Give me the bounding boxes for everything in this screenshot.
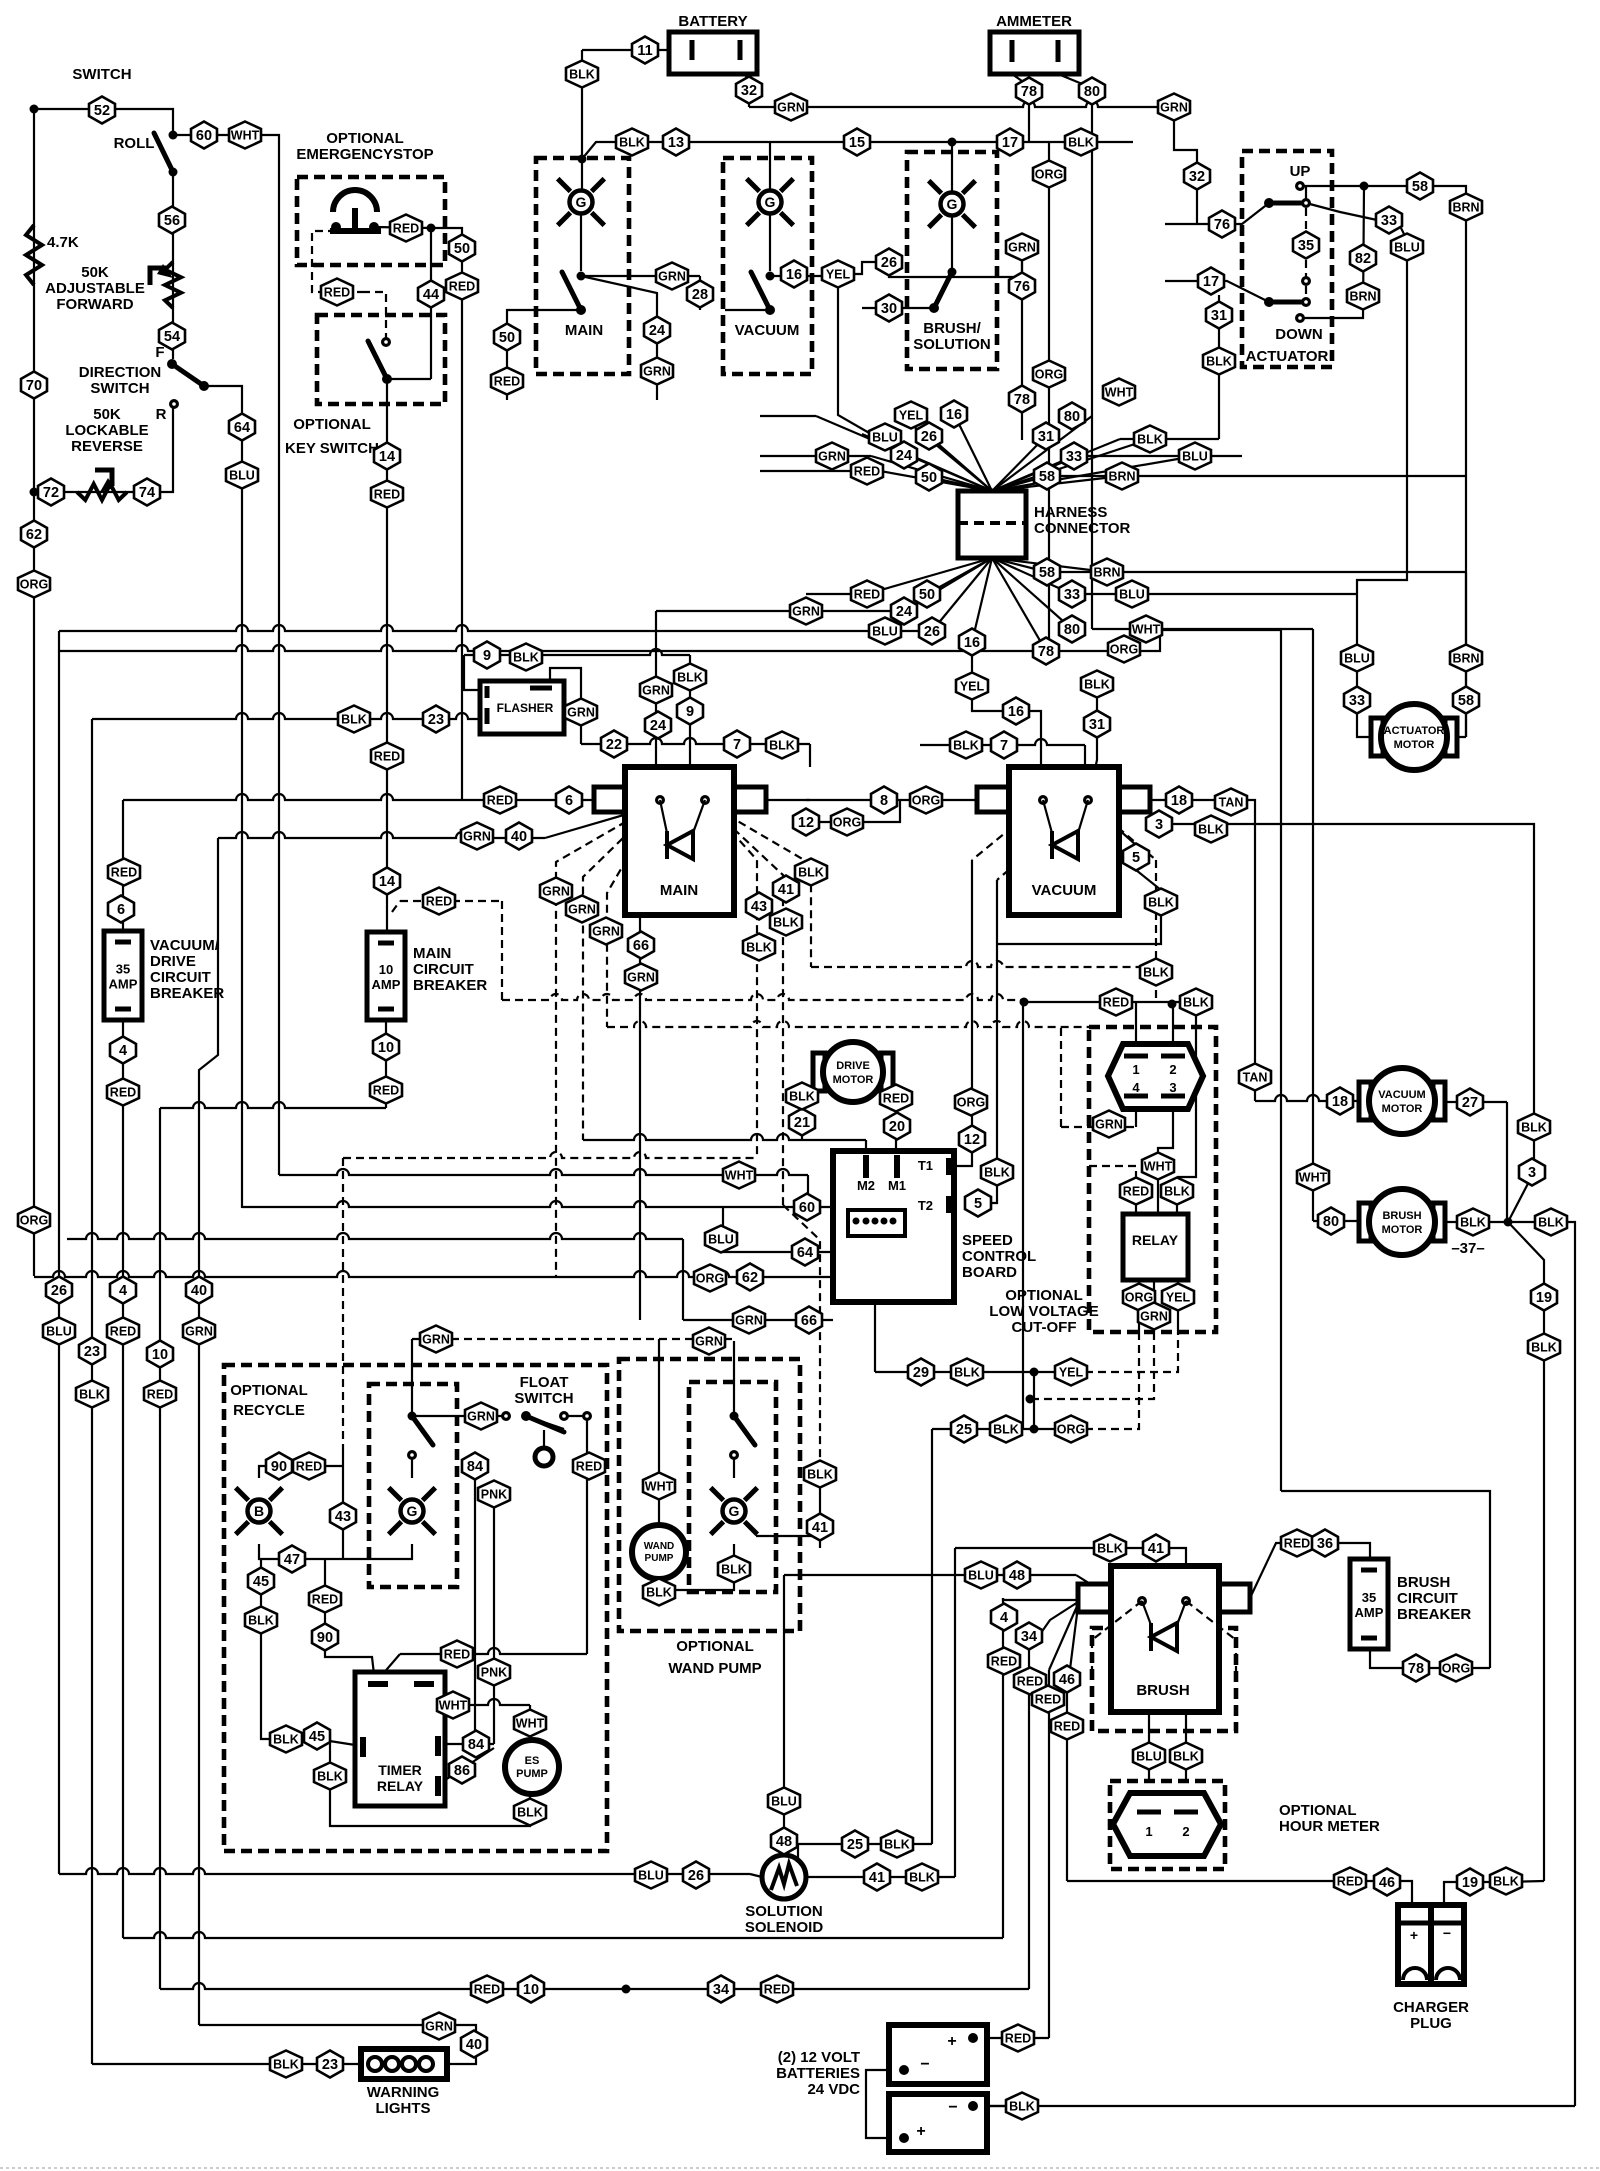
wire label RED — [107, 1079, 139, 1106]
svg-text:16: 16 — [1008, 704, 1024, 720]
dashed brush fan right — [1186, 1601, 1236, 1640]
wire label 58 — [1034, 559, 1060, 586]
wire WHT into ES pump — [529, 1705, 531, 1742]
svg-text:LOCKABLE: LOCKABLE — [65, 422, 148, 439]
svg-text:BLK: BLK — [798, 866, 824, 880]
svg-text:M2: M2 — [857, 1178, 875, 1193]
dashed wire MAIN fan GRN x583 — [583, 802, 660, 1140]
svg-text:HOUR METER: HOUR METER — [1279, 1818, 1380, 1835]
wire label BLK — [795, 859, 827, 886]
harness fan wire — [992, 416, 1092, 491]
svg-text:DRIVE: DRIVE — [150, 953, 196, 970]
wire GRN 32 descent to 76 — [1174, 107, 1197, 224]
svg-text:15: 15 — [849, 135, 865, 151]
wire vacuum lower contact — [725, 309, 770, 311]
svg-text:RED: RED — [1017, 1675, 1043, 1689]
wire label GRN — [1093, 1111, 1125, 1138]
svg-text:BLK: BLK — [1531, 1341, 1557, 1355]
wire label BLK — [1170, 1743, 1202, 1770]
svg-text:33: 33 — [1064, 587, 1080, 603]
wire label GRN — [461, 823, 493, 850]
svg-text:BLK: BLK — [1097, 1542, 1123, 1556]
wire label BLK — [1161, 1178, 1193, 1205]
wire label WHT — [514, 1710, 546, 1737]
wire hourmeter pin1 — [1148, 1796, 1150, 1812]
svg-text:MOTOR: MOTOR — [1382, 1103, 1423, 1115]
wire label YEL — [895, 402, 927, 429]
wire label BLU — [635, 1862, 667, 1889]
svg-text:BLK: BLK — [1009, 2100, 1035, 2114]
wire 33 BLU down — [1357, 228, 1407, 594]
wire label 5 — [1123, 844, 1149, 871]
svg-text:RED: RED — [576, 1460, 602, 1474]
battery 1 box — [889, 2025, 987, 2084]
svg-text:3: 3 — [1155, 817, 1163, 833]
optional emergency stop enclosure — [297, 177, 445, 265]
svg-text:BLK: BLK — [773, 916, 799, 930]
dashed wire MAIN fan 43 — [705, 802, 757, 1158]
svg-text:78: 78 — [1021, 84, 1037, 100]
svg-text:4: 4 — [119, 1043, 127, 1059]
svg-text:RED: RED — [494, 375, 520, 389]
dashed 43 row y1158 — [343, 1152, 757, 1158]
wire label 33 — [1344, 687, 1370, 714]
brush relay diode — [1151, 1623, 1177, 1651]
wire x59 long vertical — [58, 631, 60, 1874]
wire label GRN — [733, 1307, 765, 1334]
svg-text:SOLUTION: SOLUTION — [913, 336, 991, 353]
pot 50K lockable reverse — [77, 484, 127, 500]
wire brush BLU down — [1148, 1714, 1150, 1781]
wire label BRN — [1091, 559, 1123, 586]
svg-text:CIRCUIT: CIRCUIT — [413, 961, 474, 978]
wire bottom row y1938 — [123, 1932, 1003, 1938]
svg-text:RED: RED — [111, 866, 137, 880]
svg-text:11: 11 — [637, 43, 652, 59]
wire 41 wand row — [756, 1535, 820, 1537]
wire 31 BLK down — [1218, 295, 1220, 439]
dashed YEL to relay — [1085, 1332, 1178, 1372]
svg-text:BLU: BLU — [1344, 652, 1370, 666]
label UP — [1290, 163, 1311, 180]
dashed ORG to relay — [1085, 1332, 1139, 1429]
svg-text:9: 9 — [686, 704, 694, 720]
wire 29 drop — [874, 1245, 876, 1372]
svg-text:41: 41 — [778, 882, 794, 898]
svg-text:16: 16 — [946, 407, 962, 423]
wire left bus x35 down — [33, 109, 35, 492]
wire TAN into vacuum motor — [1255, 1095, 1368, 1101]
svg-text:HARNESS: HARNESS — [1034, 504, 1107, 521]
wire BRN to motor (merge) — [1465, 572, 1467, 737]
svg-text:78: 78 — [1014, 392, 1030, 408]
svg-text:4: 4 — [1132, 1080, 1140, 1095]
svg-text:BLK: BLK — [79, 1388, 105, 1402]
svg-text:7: 7 — [733, 737, 741, 753]
svg-text:2: 2 — [1169, 1062, 1176, 1077]
svg-text:FLASHER: FLASHER — [497, 701, 554, 715]
wire label 76 — [1009, 273, 1035, 300]
wire BLU 26 bottom row — [59, 1868, 750, 1874]
svg-text:1: 1 — [1132, 1062, 1139, 1077]
svg-text:24: 24 — [649, 323, 665, 339]
label BATTERY — [678, 13, 747, 30]
wire label 17 — [1198, 268, 1224, 295]
wire label 15 — [844, 129, 870, 156]
wire 21 M2 row y1140 — [583, 1134, 866, 1140]
wire label 6 — [108, 896, 134, 923]
dashed wire MAIN fan GRN x556 — [556, 802, 660, 1277]
svg-text:ORG: ORG — [20, 1214, 48, 1228]
harness connector mid dash — [958, 521, 1026, 525]
svg-text:BLK: BLK — [984, 1166, 1010, 1180]
svg-text:–37–: –37– — [1451, 1240, 1484, 1257]
wire label 3 — [1146, 811, 1172, 838]
wire label WHT — [1142, 1153, 1174, 1180]
wire label YEL — [1162, 1284, 1194, 1311]
svg-text:RED: RED — [1123, 1185, 1149, 1199]
harness fan low wire — [992, 558, 1047, 572]
svg-text:F: F — [155, 344, 164, 361]
svg-text:27: 27 — [1462, 1095, 1478, 1111]
dashed RED row — [400, 900, 502, 902]
dashed RED stub — [392, 901, 400, 912]
wire 34 fan — [1029, 1602, 1078, 1650]
wire GRN 40 row — [218, 832, 545, 838]
wire link 29-25 — [1033, 1372, 1035, 1429]
svg-text:BLK: BLK — [1183, 996, 1209, 1010]
flasher box — [480, 681, 564, 734]
svg-text:58: 58 — [1039, 565, 1055, 581]
wire label BLU — [1179, 443, 1211, 470]
35 lower contact — [1301, 276, 1311, 286]
wire BLU 33 motor left — [1357, 594, 1381, 737]
wire x1029 up 34 — [1028, 1650, 1030, 1989]
svg-text:31: 31 — [1211, 308, 1227, 324]
wire label 45 — [304, 1723, 330, 1750]
MAIN relay box — [625, 767, 734, 915]
wire wand G top column — [733, 1341, 735, 1416]
wire label 41 — [773, 876, 799, 903]
wire 78 ORG long row — [60, 645, 1124, 651]
wire label 16 — [781, 261, 807, 288]
svg-text:VACUUM: VACUUM — [735, 322, 800, 339]
wire label 26 — [46, 1277, 72, 1304]
wire label PNK — [478, 1481, 510, 1508]
wire label 66 — [796, 1307, 822, 1334]
svg-text:WAND PUMP: WAND PUMP — [668, 1660, 761, 1677]
label F — [155, 344, 164, 361]
svg-text:GRN: GRN — [658, 270, 686, 284]
wire YEL 16 to harness — [838, 300, 871, 434]
svg-text:43: 43 — [335, 1509, 351, 1525]
svg-text:32: 32 — [1189, 169, 1205, 185]
harness fan wire — [816, 416, 992, 491]
junction brush motor — [1504, 1218, 1513, 1227]
wire label 50 — [494, 324, 520, 351]
wire BLU 48 row — [953, 1574, 1076, 1576]
wire label 16 — [1003, 698, 1029, 725]
svg-text:BLU: BLU — [229, 469, 255, 483]
wire roll switch to direction switch — [172, 172, 174, 359]
label optional wand pump — [668, 1638, 761, 1677]
svg-text:24: 24 — [896, 448, 912, 464]
wire WHT drop to 60 row — [807, 1175, 809, 1207]
wire VACUUM right tab — [1119, 799, 1150, 801]
wire label 25 — [842, 1831, 868, 1858]
wire RED 50 row left end — [806, 593, 867, 595]
wire 33 BLU row to actuator motor — [1072, 593, 1357, 595]
wire label BLK — [1195, 816, 1227, 843]
direction switch F contact — [167, 359, 177, 369]
wire MAIN contact to GRN — [581, 275, 700, 277]
svg-text:10: 10 — [379, 962, 393, 977]
label MAIN switch — [565, 322, 603, 339]
svg-text:WHT: WHT — [231, 129, 260, 143]
wire label 90 — [312, 1624, 338, 1651]
wire GRN row y107 — [749, 101, 1174, 107]
harness fan low wire — [992, 558, 1072, 594]
wire ORG 12 T1 column — [954, 860, 972, 1166]
wire label 48 — [771, 1828, 797, 1855]
svg-text:21: 21 — [794, 1115, 810, 1131]
wire label 26 — [876, 249, 902, 276]
VACUUM switch pivot — [766, 272, 775, 281]
wire label 23 — [317, 2051, 343, 2078]
pot arrow — [150, 268, 166, 285]
wire label WHT — [1130, 616, 1162, 643]
wire 17 into actuator down contact — [1165, 281, 1269, 302]
wire label BRN — [1450, 645, 1482, 672]
wire label 40 — [186, 1277, 212, 1304]
down fixed contact — [1264, 297, 1274, 307]
svg-text:24: 24 — [650, 718, 666, 734]
svg-text:GRN: GRN — [695, 1335, 723, 1349]
brush circuit breaker — [1350, 1559, 1388, 1649]
svg-text:26: 26 — [688, 1868, 704, 1884]
wire GRN 40 to warning lights — [199, 2025, 476, 2064]
dashed bus y1027 — [607, 1021, 1089, 1027]
wire label RED — [107, 1318, 139, 1345]
wire into MAIN relay right — [809, 744, 811, 767]
svg-text:WHT: WHT — [1144, 1160, 1173, 1174]
svg-text:BLU: BLU — [708, 1233, 734, 1247]
svg-text:48: 48 — [1009, 1568, 1025, 1584]
wire label 9 — [474, 642, 500, 669]
wire label 18 — [1166, 787, 1192, 814]
wire row y1002 — [1024, 1001, 1196, 1003]
junction battery BLK — [578, 155, 587, 164]
svg-text:+: + — [916, 2123, 925, 2140]
wire 84 row to timer pin — [436, 1743, 494, 1745]
wire label 44 — [418, 281, 444, 308]
wire x1023 down — [1022, 1002, 1024, 1429]
wire pin2 up — [1172, 1004, 1174, 1044]
wire ammeter left 78 — [1012, 74, 1029, 142]
wire label BRN — [1106, 463, 1138, 490]
svg-text:BLK: BLK — [619, 136, 645, 150]
wire label BLK — [981, 1159, 1013, 1186]
wire label 18 — [1327, 1088, 1353, 1115]
wire label 4 — [110, 1277, 136, 1304]
wire label 60 — [794, 1194, 820, 1221]
svg-text:90: 90 — [317, 1630, 333, 1646]
svg-text:52: 52 — [94, 103, 110, 119]
wire label 43 — [746, 893, 772, 920]
svg-text:OPTIONAL: OPTIONAL — [230, 1382, 308, 1399]
svg-text:G: G — [407, 1503, 418, 1519]
wire label 90 — [266, 1453, 292, 1480]
svg-text:GRN: GRN — [542, 885, 570, 899]
svg-text:RED: RED — [374, 750, 400, 764]
harness fan wire — [954, 414, 992, 491]
wire label ORG — [18, 571, 50, 598]
wire label 34 — [1016, 1623, 1042, 1650]
wire RED 46 to charger — [1067, 1881, 1412, 1905]
svg-text:RED: RED — [991, 1655, 1017, 1669]
svg-text:BLU: BLU — [771, 1795, 797, 1809]
VACUUM relay left tab — [977, 787, 1009, 812]
svg-text:RED: RED — [373, 1084, 399, 1098]
wire label BLK — [906, 1864, 938, 1891]
actuator up arm — [1269, 201, 1306, 206]
wire label GRN — [790, 598, 822, 625]
wire label RED — [371, 481, 403, 508]
roll switch pivot — [169, 131, 178, 140]
warning light bulbs — [368, 2057, 382, 2071]
wire 80 WHT row right — [1092, 628, 1313, 630]
wire label RED — [309, 1586, 341, 1613]
svg-text:WHT: WHT — [1299, 1171, 1328, 1185]
svg-text:31: 31 — [1038, 429, 1054, 445]
svg-text:RELAY: RELAY — [1132, 1232, 1179, 1248]
wire YEL row — [1034, 1371, 1085, 1373]
svg-text:RED: RED — [854, 588, 880, 602]
wire label 5 — [965, 1190, 991, 1217]
wire label 8 — [871, 787, 897, 814]
wire label RED — [1032, 1686, 1064, 1713]
svg-text:MAIN: MAIN — [565, 322, 603, 339]
brush relay dashed enclosure — [1092, 1628, 1236, 1731]
wire label BLK — [245, 1607, 277, 1634]
svg-text:DOWN: DOWN — [1275, 326, 1323, 343]
wire label 29 — [908, 1359, 934, 1386]
svg-text:4: 4 — [1000, 1610, 1008, 1626]
wire 48 BLU vertical — [783, 1575, 785, 1856]
wire label 82 — [1350, 245, 1376, 272]
wire label 33 — [1061, 443, 1087, 470]
svg-text:TAN: TAN — [1219, 796, 1244, 810]
wire x1003 up to brush fan — [1002, 1598, 1004, 1938]
wire relay ORG down — [1138, 1280, 1140, 1332]
dashed brush fan left — [1092, 1601, 1142, 1640]
label 50K adjustable forward — [45, 264, 145, 313]
VACUUM relay right tab — [1119, 787, 1150, 812]
junction estop RED — [427, 224, 436, 233]
up moving contact — [1301, 198, 1311, 208]
svg-text:18: 18 — [1332, 1094, 1348, 1110]
svg-text:26: 26 — [881, 255, 897, 271]
svg-text:ROLL: ROLL — [114, 135, 155, 152]
wire up moving contact — [1305, 186, 1307, 203]
svg-text:BLK: BLK — [1143, 966, 1169, 980]
key switch contact — [381, 337, 391, 347]
wire main breaker bottom — [385, 1020, 387, 1108]
wire brush BLK down — [1185, 1714, 1187, 1781]
speed board pin wire — [892, 1221, 894, 1245]
wire BS to GRN right — [952, 276, 1022, 278]
wire label BLK — [514, 1799, 546, 1826]
svg-text:KEY SWITCH: KEY SWITCH — [285, 440, 379, 457]
wire label 64 — [229, 414, 255, 441]
svg-text:ACTUATOR: ACTUATOR — [1246, 348, 1329, 365]
junction hexconn — [1168, 1000, 1177, 1009]
wire flasher GRN 22 — [550, 668, 581, 744]
wire GRN to recycle G pivot — [411, 1339, 413, 1416]
wire label GRN — [565, 699, 597, 726]
wire 80 into brush motor — [1313, 1220, 1368, 1222]
wire BLK 41 vertical solid — [819, 1474, 821, 1548]
label optional recycle — [230, 1382, 308, 1419]
label AMMETER — [996, 13, 1072, 30]
svg-text:FLOAT: FLOAT — [520, 1374, 569, 1391]
wire label BLK — [1203, 348, 1235, 375]
dashed wire MAIN fan BLK — [705, 802, 811, 967]
svg-text:GRN: GRN — [1095, 1118, 1123, 1132]
optional low voltage cutoff enclosure — [1089, 1027, 1216, 1332]
wire brush right tab — [1219, 1597, 1250, 1599]
page bottom dotted line — [0, 2167, 1600, 2169]
wire label 12 — [793, 809, 819, 836]
wire 58 BRN row right — [1047, 475, 1466, 477]
wire RED 90 to timer — [325, 1559, 375, 1683]
svg-text:YEL: YEL — [1166, 1291, 1191, 1305]
wire brush motor BLK — [1436, 1221, 1508, 1223]
wire label GRN — [420, 1326, 452, 1353]
wire label 17 — [997, 129, 1023, 156]
svg-text:BLK: BLK — [317, 1770, 343, 1784]
svg-text:72: 72 — [43, 485, 59, 501]
svg-text:10: 10 — [378, 1040, 394, 1056]
harness fan wire — [929, 477, 992, 491]
harness fan wire — [900, 415, 992, 491]
svg-text:REVERSE: REVERSE — [71, 438, 143, 455]
recycle coil G — [389, 1488, 436, 1535]
wire label ORG — [18, 1207, 50, 1234]
recycle G arm — [412, 1416, 433, 1445]
wire 7 BLK row — [920, 739, 1085, 745]
svg-text:BLK: BLK — [1137, 433, 1163, 447]
svg-text:BLK: BLK — [993, 1423, 1019, 1437]
svg-text:OPTIONAL: OPTIONAL — [676, 1638, 754, 1655]
wire BLK 31 column to vacuum relay — [1088, 684, 1097, 800]
svg-text:RECYCLE: RECYCLE — [233, 1402, 305, 1419]
wire label 46 — [1054, 1666, 1080, 1693]
svg-text:WHT: WHT — [645, 1480, 674, 1494]
svg-text:R: R — [156, 406, 167, 423]
wire BLK bottom row — [973, 2105, 1575, 2107]
wire GRN down — [656, 371, 658, 400]
wire 33 from moving contact — [1306, 203, 1377, 220]
svg-text:BLK: BLK — [954, 1366, 980, 1380]
wire label 31 — [1206, 302, 1232, 329]
wire label BLU — [226, 462, 258, 489]
wire 72-74 pot to R contact — [34, 404, 173, 492]
svg-text:58: 58 — [1458, 693, 1474, 709]
wire label 31 — [1084, 711, 1110, 738]
wire UP 58 BRN right vertical — [1300, 186, 1466, 737]
svg-text:+: + — [947, 2033, 956, 2050]
